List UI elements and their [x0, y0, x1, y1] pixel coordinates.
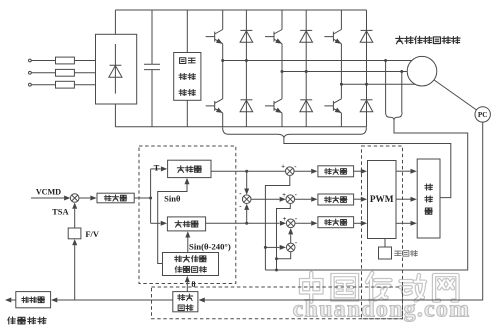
- current sense tap U wire: [385, 61, 387, 113]
- diode D4 (bottom): [300, 99, 312, 101]
- transistor Q3 (top, phase V): [265, 30, 282, 44]
- speed amplifier box: [97, 193, 134, 203]
- transistor Q1 (top, phase U): [206, 30, 223, 44]
- watermark char wang (core): [434, 275, 457, 301]
- wire PWM to triangle wave generator: [384, 239, 386, 248]
- phase V output wire: [282, 71, 408, 73]
- label regen box: kong zhi: [179, 90, 186, 96]
- watermark char wang (outer): [434, 275, 457, 301]
- wire feedback to F/V: [74, 245, 76, 300]
- phase U output wire: [223, 60, 413, 62]
- watermark char guo (outer): [333, 275, 357, 299]
- wire feedback vertical 2 to C: [277, 204, 291, 270]
- wire PWM out 1 to driver: [396, 170, 411, 172]
- wire amplifier 2 to PWM: [354, 198, 362, 200]
- label rotor position line 1: [175, 256, 182, 262]
- node current command U: [245, 170, 248, 173]
- input terminal R: [29, 59, 32, 62]
- wire torque split vertical: [150, 169, 152, 223]
- PWM box: [368, 161, 397, 239]
- fuse FR: [56, 57, 75, 64]
- label regen box: zhi dong: [179, 74, 186, 80]
- wire E left input: [265, 246, 279, 248]
- gate driver box: [417, 159, 440, 238]
- wire C to amplifier 2: [295, 198, 312, 200]
- wire feedback vertical 1 to A: [265, 176, 289, 270]
- wire theta from receiving circuit: [186, 282, 188, 292]
- motor to encoder shaft line: [434, 80, 478, 111]
- watermark char chuan (core): [367, 273, 390, 302]
- label position driver: [22, 297, 29, 303]
- watermark layer: [293, 273, 471, 322]
- svg-text:+: +: [282, 216, 286, 223]
- label speed amplifier: [104, 195, 111, 200]
- current amplifier 2 box: [318, 194, 354, 205]
- watermark char zhong (outer): [301, 273, 321, 302]
- speed feedback wire to S1: [74, 209, 76, 228]
- wire amplifier 3 to PWM: [354, 222, 362, 224]
- wire E output up into D: [290, 234, 292, 243]
- label triangle wave: [395, 250, 418, 256]
- summing junction B: [242, 195, 251, 204]
- label receiving circuit line 2: [178, 305, 184, 311]
- capacitor C1: [144, 64, 160, 69]
- summing junction A: [286, 167, 295, 176]
- label position control: [8, 317, 15, 324]
- wire node to summing B top: [246, 171, 248, 188]
- wire VCMD input: [31, 197, 64, 199]
- node current command W: [245, 222, 248, 225]
- svg-text:PWM: PWM: [370, 195, 394, 205]
- hanzi labels: [8, 36, 460, 324]
- wire into multiplier 1: [151, 168, 161, 170]
- F/V converter box: [68, 228, 81, 239]
- latin labels: [36, 111, 488, 289]
- dashed box: PWM group: [362, 146, 403, 319]
- diode D3 (top): [300, 29, 312, 31]
- label receiving circuit line 1: [178, 295, 185, 301]
- label current amplifier 1: [325, 169, 332, 174]
- junction dots phase V: [281, 70, 284, 73]
- wire phase T input: [31, 84, 95, 86]
- wire rectifier to top rail: [114, 10, 116, 34]
- svg-text:T: T: [154, 163, 160, 173]
- wire Sin(theta-240) from rotor box: [187, 237, 189, 252]
- current amplifier 1 box: [318, 166, 354, 177]
- svg-text:Sinθ: Sinθ: [164, 194, 181, 204]
- svg-text:-: -: [239, 191, 242, 198]
- wire receive circuit to position driver: [57, 299, 173, 301]
- summing junction S1: [70, 194, 79, 203]
- receiving circuit box: [173, 292, 198, 312]
- node E left tap: [264, 246, 267, 249]
- pulse coder PC circle: [475, 107, 490, 122]
- diode D1 leg wire: [245, 10, 247, 127]
- watermark char zhong (core): [301, 273, 321, 302]
- svg-text:-: -: [295, 240, 298, 247]
- watermark char dong (core): [401, 275, 425, 301]
- small brace (current sense bundle): [386, 112, 403, 119]
- input terminal T: [29, 83, 32, 86]
- svg-text:+: +: [282, 192, 286, 199]
- transistor Q2 (bottom, phase U): [206, 99, 223, 113]
- diode D1 (top): [240, 29, 252, 31]
- input terminal S: [29, 71, 32, 74]
- wire regen box top: [186, 10, 188, 53]
- watermark char chuan (outer): [367, 273, 390, 302]
- dashed box: rotor position calculating circuit group: [139, 146, 236, 284]
- wire capacitor bottom: [151, 70, 153, 127]
- label rotor position line 2: [175, 266, 182, 272]
- AC servo motor circle: [407, 56, 437, 86]
- svg-text:TSA: TSA: [52, 207, 69, 217]
- wire into multiplier 2: [151, 222, 161, 224]
- label current amplifier 3: [325, 220, 332, 225]
- transistor Q4 (bottom, phase V): [265, 99, 282, 113]
- diode D3 leg wire: [305, 10, 307, 127]
- diode D5 leg wire: [366, 10, 368, 127]
- wire driver output left: [11, 299, 16, 301]
- wire summing B to summing C: [251, 198, 279, 200]
- encoder feedback wire: [205, 122, 483, 300]
- wire regen box bottom: [186, 100, 188, 127]
- wire A to amplifier 1: [294, 170, 311, 172]
- rotor position calculating circuit box: [163, 253, 219, 276]
- summing junction D: [286, 219, 295, 228]
- svg-text:VCMD: VCMD: [36, 187, 61, 196]
- wire S1 to amplifier: [79, 197, 90, 199]
- svg-text:-: -: [295, 191, 298, 198]
- multiplier 2 box: [167, 217, 205, 231]
- svg-text:PC: PC: [478, 111, 488, 119]
- label current amplifier 2: [325, 197, 332, 202]
- node bundle tap: [275, 269, 278, 272]
- multiplier 1 box: [168, 160, 211, 177]
- svg-text:F/V: F/V: [85, 229, 100, 239]
- wire E bottom corner: [277, 252, 291, 259]
- transistor Q5 (top, phase W): [324, 30, 341, 44]
- current feedback bundle wire: [265, 120, 467, 270]
- transistor Q1 leg wire: [222, 10, 224, 127]
- fuse FS: [56, 69, 75, 76]
- gate drive wire from driver: [284, 138, 451, 198]
- diode D6 (bottom): [361, 99, 373, 101]
- svg-text:+: +: [281, 164, 285, 171]
- wire node to summing B bottom: [246, 210, 248, 224]
- transistor Q6 (bottom, phase W): [324, 99, 341, 113]
- rectifier box: [96, 34, 137, 104]
- wire phase R input: [31, 60, 95, 62]
- triangle wave generator box: [379, 247, 392, 259]
- watermark char guo (core): [333, 275, 357, 299]
- position driver box: [16, 292, 51, 308]
- svg-text:θ: θ: [191, 280, 195, 289]
- svg-text:-: -: [294, 164, 297, 171]
- phase W output wire: [341, 83, 416, 85]
- junction dots phase W: [340, 83, 343, 86]
- wire rectifier to bottom rail: [114, 104, 116, 127]
- label AC servo motor: [396, 36, 403, 43]
- wire PWM out 2 to driver: [396, 198, 411, 200]
- current sense tap V wire: [401, 72, 403, 113]
- label gate driver (vertical): [425, 184, 433, 190]
- label multiplier 2: [175, 221, 181, 227]
- wire phase S input: [31, 72, 95, 74]
- watermark char dong (outer): [401, 275, 425, 301]
- wire amplifier to torque split node: [134, 197, 150, 199]
- summing junction C: [286, 195, 295, 204]
- label multiplier 1: [177, 166, 184, 173]
- current amplifier 3 box: [318, 217, 354, 228]
- label regen box: zai sheng: [180, 58, 186, 64]
- rectifier diode: [110, 44, 122, 94]
- dashed box: receiving circuit group: [152, 287, 403, 319]
- wire PWM out 3 to driver: [396, 222, 411, 224]
- big brace (gate drive bundle): [223, 127, 367, 138]
- svg-text:-: -: [295, 216, 298, 223]
- svg-text:-: -: [239, 203, 242, 210]
- wire amplifier 1 to PWM: [354, 170, 362, 172]
- wire D to amplifier 3: [295, 222, 311, 224]
- wire multiplier 2 output to summing D: [206, 222, 280, 224]
- node E bottom tap: [275, 257, 278, 260]
- wire capacitor top: [151, 10, 153, 64]
- summing junction E: [286, 243, 295, 252]
- transistor Q3 leg wire: [281, 10, 283, 127]
- DC bus bottom rail: [115, 126, 366, 128]
- junction dots phase U: [221, 59, 224, 62]
- diode D5 (top): [361, 29, 373, 31]
- regenerative braking control box: [174, 53, 201, 101]
- svg-text:Sin(θ-240°): Sin(θ-240°): [189, 241, 231, 251]
- wire multiplier 1 output to summing A: [211, 170, 285, 172]
- fuse FT: [56, 81, 75, 88]
- transistor Q5 leg wire: [340, 10, 342, 127]
- DC bus top rail: [115, 9, 366, 11]
- node torque split: [149, 197, 152, 200]
- wire Sin theta from rotor box: [158, 184, 187, 263]
- diode D2 (bottom): [240, 99, 252, 101]
